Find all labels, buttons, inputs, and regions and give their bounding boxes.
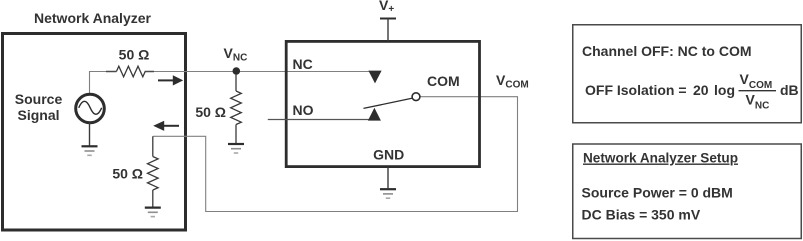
svg-text:20: 20 xyxy=(693,82,709,98)
svg-text:Channel OFF: NC to COM: Channel OFF: NC to COM xyxy=(582,43,752,59)
svg-text:VNC: VNC xyxy=(224,45,248,64)
ground under bottom resistor xyxy=(145,208,161,217)
sine wave xyxy=(79,101,102,114)
info box channel off xyxy=(573,25,802,123)
wire below source xyxy=(89,123,91,146)
svg-text:NC: NC xyxy=(293,56,313,72)
svg-text:GND: GND xyxy=(373,147,404,163)
svg-text:COM: COM xyxy=(427,73,460,89)
return wire: COM to 50ohm xyxy=(153,97,518,212)
V+ terminal xyxy=(380,18,396,20)
resistor 50ohm bottom left xyxy=(152,136,154,156)
COM pole circle xyxy=(412,93,420,101)
svg-text:NO: NO xyxy=(293,102,314,118)
svg-text:Source Power = 0 dBM: Source Power = 0 dBM xyxy=(582,185,733,201)
ground under source xyxy=(82,146,98,155)
resistor R top leads xyxy=(106,71,154,73)
svg-text:Network Analyzer: Network Analyzer xyxy=(34,10,152,26)
info box network analyzer setup xyxy=(573,144,802,239)
svg-text:VCOM: VCOM xyxy=(740,71,773,91)
source signal circle xyxy=(76,94,105,123)
resistor 50ohm horizontal xyxy=(116,66,145,77)
svg-text:50 Ω: 50 Ω xyxy=(195,104,226,120)
resistor 50ohm vertical at VNC xyxy=(235,74,237,91)
switch lever xyxy=(364,98,412,108)
svg-text:VCOM: VCOM xyxy=(496,72,529,91)
arrow left annotation xyxy=(164,125,180,127)
svg-text:OFF Isolation =: OFF Isolation = xyxy=(585,82,687,98)
svg-text:Signal: Signal xyxy=(17,107,59,123)
NO contact triangle xyxy=(368,108,381,121)
GND wire below box xyxy=(387,167,389,188)
switch box xyxy=(286,41,479,166)
ground under VNC resistor xyxy=(228,144,244,153)
wire top: source to NC xyxy=(90,72,376,94)
NC contact triangle xyxy=(368,71,381,84)
svg-text:50 Ω: 50 Ω xyxy=(119,47,150,63)
network analyzer box xyxy=(3,34,186,231)
svg-text:V+: V+ xyxy=(379,0,394,15)
svg-text:Source: Source xyxy=(15,91,63,107)
node VNC dot xyxy=(233,67,241,75)
svg-text:50 Ω: 50 Ω xyxy=(112,166,143,182)
NO stub wire xyxy=(268,119,374,121)
svg-text:dB: dB xyxy=(780,82,799,98)
svg-text:log: log xyxy=(714,82,735,98)
svg-text:VNC: VNC xyxy=(746,92,770,112)
svg-text:DC Bias = 350 mV: DC Bias = 350 mV xyxy=(582,207,701,223)
arrow right annotation xyxy=(158,79,174,81)
ground under switch box xyxy=(380,189,396,198)
svg-text:Network Analyzer Setup: Network Analyzer Setup xyxy=(583,150,738,166)
